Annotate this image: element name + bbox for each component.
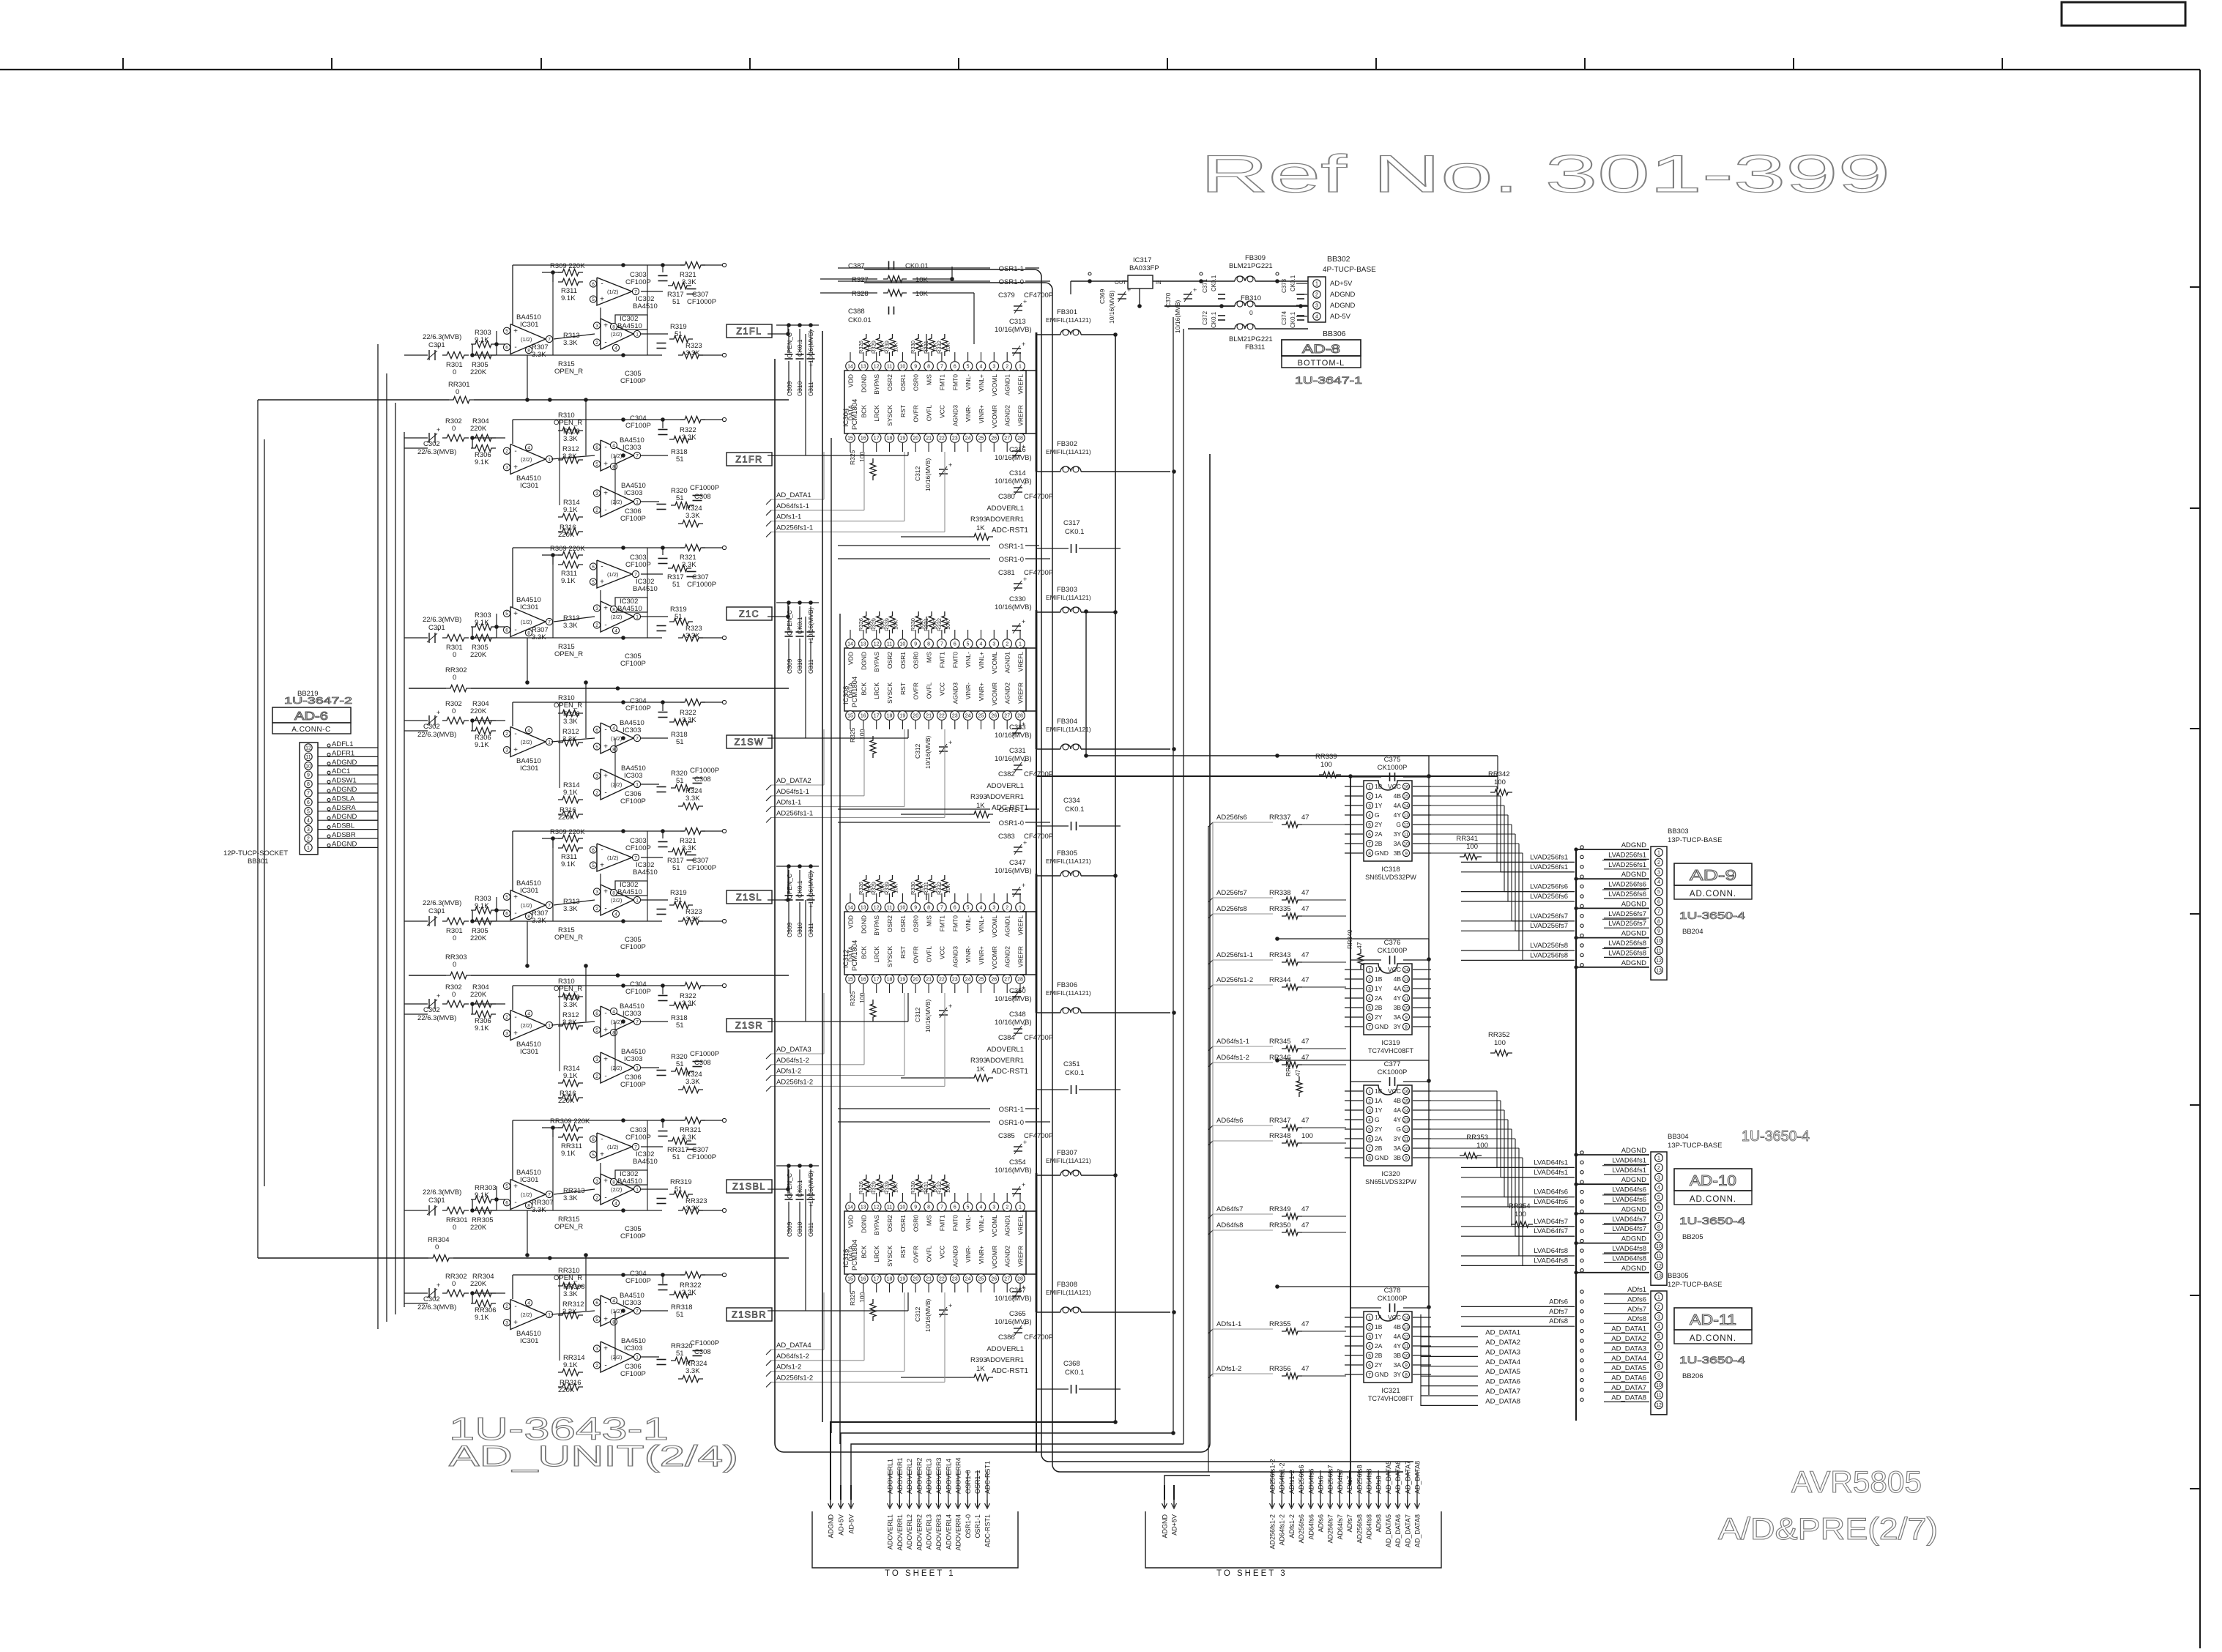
svg-text:51: 51 bbox=[672, 298, 680, 306]
svg-text:14: 14 bbox=[1403, 1315, 1409, 1320]
svg-text:100: 100 bbox=[1466, 843, 1478, 851]
svg-text:FB310: FB310 bbox=[1241, 294, 1261, 302]
svg-text:OSR0: OSR0 bbox=[913, 374, 920, 391]
svg-text:ADOVERR4: ADOVERR4 bbox=[955, 1514, 962, 1551]
svg-text:15: 15 bbox=[847, 436, 853, 442]
svg-text:+: + bbox=[1023, 576, 1027, 583]
svg-text:AGND2: AGND2 bbox=[1004, 682, 1011, 704]
svg-text:AD64fs8: AD64fs8 bbox=[1216, 1221, 1243, 1229]
svg-text:2: 2 bbox=[595, 508, 598, 513]
svg-text:LVAD256fs6: LVAD256fs6 bbox=[1608, 890, 1646, 898]
svg-text:C370: C370 bbox=[1164, 292, 1172, 308]
svg-text:IC308: IC308 bbox=[842, 686, 850, 704]
svg-text:14: 14 bbox=[847, 642, 853, 647]
svg-text:DGND: DGND bbox=[860, 1215, 867, 1233]
svg-text:VINL-: VINL- bbox=[965, 1215, 972, 1231]
svg-text:51: 51 bbox=[672, 864, 680, 872]
svg-text:BA4510: BA4510 bbox=[617, 888, 642, 896]
svg-text:20: 20 bbox=[913, 1277, 918, 1282]
svg-text:1: 1 bbox=[636, 614, 639, 619]
svg-text:C312: C312 bbox=[914, 743, 921, 759]
svg-text:FB303: FB303 bbox=[1057, 586, 1077, 594]
svg-text:IC316: IC316 bbox=[842, 1249, 850, 1268]
svg-text:C309: C309 bbox=[786, 381, 793, 396]
svg-text:-: - bbox=[514, 909, 516, 918]
svg-text:1: 1 bbox=[636, 898, 639, 903]
svg-text:+: + bbox=[600, 578, 604, 587]
svg-text:220K: 220K bbox=[470, 1224, 487, 1232]
svg-text:15: 15 bbox=[1403, 1098, 1409, 1104]
svg-text:4: 4 bbox=[527, 1011, 530, 1016]
svg-text:6: 6 bbox=[954, 906, 956, 911]
svg-text:10: 10 bbox=[1656, 1383, 1662, 1388]
svg-text:2B: 2B bbox=[1375, 1145, 1383, 1152]
svg-text:AD256fs1-1: AD256fs1-1 bbox=[776, 809, 813, 817]
svg-text:5: 5 bbox=[505, 611, 508, 617]
svg-text:C309: C309 bbox=[786, 658, 793, 674]
svg-text:1U-3650-4: 1U-3650-4 bbox=[1742, 1128, 1810, 1145]
svg-text:9.1K: 9.1K bbox=[561, 577, 576, 585]
svg-text:-: - bbox=[604, 789, 606, 797]
svg-text:OSR1: OSR1 bbox=[899, 374, 907, 391]
svg-text:18: 18 bbox=[887, 436, 893, 442]
svg-text:100: 100 bbox=[1494, 778, 1506, 786]
svg-text:2: 2 bbox=[1368, 1098, 1371, 1104]
svg-text:AD_DATA6: AD_DATA6 bbox=[1485, 1378, 1520, 1386]
svg-text:0: 0 bbox=[452, 1280, 456, 1288]
svg-text:-: - bbox=[604, 1299, 606, 1307]
svg-text:C369: C369 bbox=[1099, 289, 1106, 304]
svg-text:3: 3 bbox=[1368, 986, 1371, 991]
svg-text:C387: C387 bbox=[848, 262, 865, 270]
svg-text:4: 4 bbox=[1368, 996, 1371, 1001]
svg-text:3B: 3B bbox=[1394, 1154, 1402, 1161]
svg-text:17: 17 bbox=[874, 978, 880, 983]
svg-text:FB307: FB307 bbox=[1057, 1149, 1077, 1157]
svg-text:R393: R393 bbox=[970, 1057, 987, 1065]
svg-text:CF1000P: CF1000P bbox=[690, 1339, 719, 1347]
svg-text:OSR1-0: OSR1-0 bbox=[999, 819, 1024, 827]
svg-text:9.1K: 9.1K bbox=[563, 1361, 578, 1369]
svg-text:3.3K: 3.3K bbox=[563, 1194, 578, 1202]
svg-text:RR350: RR350 bbox=[1269, 1221, 1291, 1229]
svg-text:AD64fs7: AD64fs7 bbox=[1216, 1205, 1243, 1213]
svg-text:AD-5V: AD-5V bbox=[848, 1514, 855, 1534]
svg-text:0: 0 bbox=[456, 388, 459, 396]
svg-text:AD_DATA6: AD_DATA6 bbox=[1394, 1461, 1402, 1494]
svg-text:ADGND: ADGND bbox=[1621, 900, 1646, 908]
svg-text:2: 2 bbox=[595, 341, 598, 346]
svg-text:10: 10 bbox=[1656, 939, 1662, 944]
svg-text:ADfs1: ADfs1 bbox=[1627, 1286, 1646, 1294]
svg-text:FMT1: FMT1 bbox=[938, 652, 945, 668]
svg-text:RR341: RR341 bbox=[1456, 835, 1478, 843]
svg-text:Z1FR: Z1FR bbox=[735, 455, 762, 465]
svg-text:9: 9 bbox=[1657, 1235, 1660, 1240]
svg-text:M/S: M/S bbox=[926, 915, 933, 926]
svg-text:LVAD64fs1: LVAD64fs1 bbox=[1534, 1169, 1568, 1177]
svg-text:7: 7 bbox=[1368, 841, 1371, 847]
svg-text:6: 6 bbox=[1368, 1363, 1371, 1368]
svg-text:2B: 2B bbox=[1375, 1004, 1383, 1011]
svg-text:ADOVERR4: ADOVERR4 bbox=[955, 1457, 962, 1494]
svg-text:4: 4 bbox=[980, 642, 983, 647]
svg-text:RR348: RR348 bbox=[1269, 1132, 1291, 1140]
svg-text:TO SHEET 3: TO SHEET 3 bbox=[1216, 1569, 1288, 1578]
svg-text:IC304: IC304 bbox=[842, 409, 850, 427]
svg-text:OVFR: OVFR bbox=[913, 1246, 920, 1263]
svg-text:+: + bbox=[513, 893, 518, 901]
svg-text:10/16(MVB): 10/16(MVB) bbox=[995, 867, 1032, 875]
svg-text:-: - bbox=[604, 726, 606, 734]
svg-text:AD64fs1-2: AD64fs1-2 bbox=[776, 1057, 809, 1065]
svg-text:9.1K: 9.1K bbox=[561, 860, 576, 868]
svg-text:-: - bbox=[604, 1073, 606, 1081]
svg-text:AGND1: AGND1 bbox=[1004, 915, 1011, 937]
svg-text:M/S: M/S bbox=[926, 652, 933, 663]
svg-text:8: 8 bbox=[307, 782, 310, 787]
svg-text:(2/2): (2/2) bbox=[611, 1186, 623, 1193]
svg-text:VCC: VCC bbox=[1388, 1087, 1401, 1095]
svg-text:LVAD64fs8: LVAD64fs8 bbox=[1612, 1254, 1646, 1262]
svg-text:7: 7 bbox=[940, 906, 943, 911]
svg-text:ADOVERL3: ADOVERL3 bbox=[926, 1514, 933, 1549]
svg-text:-: - bbox=[514, 626, 516, 634]
svg-text:SN65LVDS32PW: SN65LVDS32PW bbox=[1365, 1178, 1416, 1186]
svg-text:AD-10: AD-10 bbox=[1690, 1173, 1736, 1189]
svg-text:13P-TUCP-BASE: 13P-TUCP-BASE bbox=[1668, 1142, 1722, 1150]
svg-text:1K: 1K bbox=[976, 1365, 985, 1373]
svg-text:14: 14 bbox=[1403, 1108, 1409, 1113]
svg-text:VREFR: VREFR bbox=[1017, 682, 1025, 704]
svg-text:AD_DATA3: AD_DATA3 bbox=[1611, 1344, 1646, 1353]
svg-text:1: 1 bbox=[1019, 642, 1022, 647]
svg-text:3.3K: 3.3K bbox=[563, 622, 578, 630]
svg-text:2B: 2B bbox=[1375, 1352, 1383, 1359]
svg-text:9.1K: 9.1K bbox=[475, 741, 489, 749]
svg-text:CF100P: CF100P bbox=[625, 988, 651, 996]
svg-text:1Y: 1Y bbox=[1375, 802, 1383, 809]
svg-text:C379: C379 bbox=[998, 291, 1015, 299]
svg-text:CF1000P: CF1000P bbox=[687, 298, 716, 306]
svg-text:11: 11 bbox=[887, 365, 892, 370]
svg-text:ADfs7: ADfs7 bbox=[1549, 1308, 1568, 1316]
svg-text:3: 3 bbox=[505, 1321, 508, 1326]
svg-text:13: 13 bbox=[1403, 813, 1409, 818]
svg-text:1U-3650-4: 1U-3650-4 bbox=[1679, 1354, 1745, 1366]
svg-text:(1/2): (1/2) bbox=[611, 1308, 623, 1314]
svg-text:VINR-: VINR- bbox=[965, 946, 972, 963]
svg-text:2: 2 bbox=[1006, 642, 1008, 647]
svg-text:9.1K: 9.1K bbox=[563, 1072, 578, 1080]
svg-text:19: 19 bbox=[900, 436, 906, 442]
svg-text:3B: 3B bbox=[1394, 849, 1402, 857]
svg-text:CF1000P: CF1000P bbox=[690, 484, 719, 492]
svg-text:20: 20 bbox=[913, 978, 918, 983]
svg-text:4: 4 bbox=[1315, 315, 1318, 320]
svg-text:+: + bbox=[603, 773, 608, 781]
svg-text:3.3K: 3.3K bbox=[563, 1001, 578, 1009]
svg-text:CK0.1: CK0.1 bbox=[1211, 275, 1217, 291]
svg-text:ADfs6: ADfs6 bbox=[1318, 1476, 1325, 1494]
svg-text:11: 11 bbox=[305, 755, 311, 760]
svg-text:2: 2 bbox=[1657, 860, 1660, 866]
svg-text:VCC: VCC bbox=[1388, 1314, 1401, 1321]
svg-text:ADGND: ADGND bbox=[1621, 1147, 1646, 1155]
svg-text:+: + bbox=[603, 888, 608, 896]
svg-text:C348: C348 bbox=[1009, 1011, 1026, 1019]
svg-text:AGND2: AGND2 bbox=[1004, 946, 1011, 968]
svg-text:+: + bbox=[436, 426, 440, 434]
svg-text:AD_DATA1: AD_DATA1 bbox=[1611, 1325, 1646, 1333]
svg-text:BB205: BB205 bbox=[1682, 1233, 1703, 1241]
svg-text:12: 12 bbox=[1403, 1334, 1409, 1339]
svg-text:4: 4 bbox=[307, 819, 310, 824]
svg-text:VINR-: VINR- bbox=[965, 405, 972, 422]
svg-text:22/6.3(MVB): 22/6.3(MVB) bbox=[423, 1188, 461, 1197]
svg-text:LVAD256fs1: LVAD256fs1 bbox=[1608, 851, 1646, 859]
svg-text:0: 0 bbox=[453, 934, 456, 942]
svg-text:10/16(MVB): 10/16(MVB) bbox=[924, 735, 932, 769]
svg-text:VREFL: VREFL bbox=[1017, 374, 1025, 395]
svg-text:10K: 10K bbox=[945, 1183, 951, 1193]
svg-text:R309 220K: R309 220K bbox=[550, 262, 585, 270]
svg-text:1: 1 bbox=[1368, 784, 1371, 789]
svg-text:BA4510: BA4510 bbox=[617, 322, 642, 330]
svg-text:9: 9 bbox=[1657, 929, 1660, 934]
svg-text:3: 3 bbox=[992, 365, 995, 370]
svg-text:R329: R329 bbox=[871, 882, 877, 895]
svg-text:VCC: VCC bbox=[1388, 966, 1401, 973]
svg-text:9: 9 bbox=[914, 642, 917, 647]
svg-text:7: 7 bbox=[1657, 909, 1660, 915]
svg-text:RR349: RR349 bbox=[1269, 1205, 1291, 1213]
svg-text:26: 26 bbox=[991, 1277, 997, 1282]
svg-text:-: - bbox=[604, 1194, 606, 1202]
svg-text:+: + bbox=[1023, 839, 1027, 847]
svg-text:3.3K: 3.3K bbox=[685, 1367, 700, 1375]
svg-text:6: 6 bbox=[592, 1137, 595, 1142]
svg-text:ADfs1-1: ADfs1-1 bbox=[1216, 1320, 1241, 1328]
svg-text:4: 4 bbox=[1368, 1117, 1371, 1123]
svg-text:4: 4 bbox=[612, 1298, 615, 1303]
svg-text:ADfs1-1: ADfs1-1 bbox=[776, 799, 801, 807]
svg-text:1K: 1K bbox=[976, 524, 985, 532]
svg-text:ADOVERR1: ADOVERR1 bbox=[896, 1457, 904, 1494]
svg-text:2: 2 bbox=[595, 791, 598, 796]
svg-text:15: 15 bbox=[1403, 794, 1409, 799]
svg-text:22/6.3(MVB): 22/6.3(MVB) bbox=[417, 1014, 456, 1022]
svg-text:IC303: IC303 bbox=[624, 772, 642, 780]
svg-text:ADGND: ADGND bbox=[1621, 1265, 1646, 1273]
svg-text:ADOVERR3: ADOVERR3 bbox=[935, 1457, 943, 1494]
svg-text:4A: 4A bbox=[1394, 1333, 1402, 1340]
svg-text:13: 13 bbox=[861, 1205, 866, 1210]
svg-text:AD_DATA1: AD_DATA1 bbox=[1485, 1329, 1520, 1337]
svg-text:AD256fs1-2: AD256fs1-2 bbox=[1269, 1514, 1277, 1549]
svg-text:3.3K: 3.3K bbox=[563, 905, 578, 913]
svg-text:ADfs1-2: ADfs1-2 bbox=[1288, 1514, 1296, 1538]
svg-text:3.3K: 3.3K bbox=[685, 1078, 700, 1086]
svg-text:ADOVERL1: ADOVERL1 bbox=[986, 1046, 1024, 1054]
svg-text:+: + bbox=[603, 322, 608, 330]
svg-text:26: 26 bbox=[991, 978, 997, 983]
svg-text:C302: C302 bbox=[423, 440, 440, 448]
svg-text:22/6.3(MVB): 22/6.3(MVB) bbox=[417, 1303, 456, 1311]
svg-text:5: 5 bbox=[592, 1153, 595, 1158]
svg-text:AD_DATA8: AD_DATA8 bbox=[1611, 1394, 1646, 1402]
svg-text:12: 12 bbox=[1403, 986, 1409, 991]
svg-text:6: 6 bbox=[1657, 1344, 1660, 1350]
svg-text:11: 11 bbox=[1656, 1254, 1661, 1260]
svg-text:ADfs1-1: ADfs1-1 bbox=[776, 513, 801, 521]
svg-text:BA4510: BA4510 bbox=[633, 585, 658, 593]
svg-text:CF100P: CF100P bbox=[620, 1081, 646, 1089]
svg-text:10/16(MVB): 10/16(MVB) bbox=[995, 603, 1032, 611]
svg-text:0: 0 bbox=[453, 674, 456, 682]
svg-text:DGND: DGND bbox=[860, 652, 867, 670]
svg-text:ADOVERL1: ADOVERL1 bbox=[986, 505, 1024, 513]
svg-text:220K: 220K bbox=[470, 707, 487, 715]
svg-text:IC319: IC319 bbox=[1381, 1039, 1400, 1047]
svg-text:1Y: 1Y bbox=[1375, 985, 1383, 992]
svg-text:1: 1 bbox=[548, 740, 551, 745]
svg-text:51: 51 bbox=[676, 1350, 684, 1358]
svg-text:9.1K: 9.1K bbox=[563, 789, 578, 797]
svg-text:+: + bbox=[603, 1056, 608, 1064]
svg-text:1: 1 bbox=[1019, 906, 1022, 911]
svg-text:15: 15 bbox=[847, 1277, 853, 1282]
svg-text:14: 14 bbox=[847, 906, 853, 911]
svg-text:7: 7 bbox=[1657, 1354, 1660, 1359]
svg-text:-: - bbox=[514, 1199, 516, 1207]
svg-text:LVAD64fs1: LVAD64fs1 bbox=[1534, 1158, 1568, 1167]
svg-text:5: 5 bbox=[595, 462, 598, 467]
svg-text:VREFR: VREFR bbox=[1017, 405, 1025, 426]
svg-text:ADGND: ADGND bbox=[1621, 871, 1646, 879]
svg-text:47: 47 bbox=[1301, 1365, 1309, 1373]
svg-text:16: 16 bbox=[861, 714, 866, 719]
svg-text:4Y: 4Y bbox=[1394, 811, 1402, 819]
svg-text:4: 4 bbox=[614, 912, 617, 917]
svg-text:ADOVERL4: ADOVERL4 bbox=[945, 1514, 952, 1549]
svg-text:OPEN_R: OPEN_R bbox=[554, 368, 583, 376]
svg-text:4A: 4A bbox=[1394, 802, 1402, 809]
svg-text:+: + bbox=[513, 464, 518, 472]
svg-text:LVAD256fs1: LVAD256fs1 bbox=[1530, 863, 1568, 871]
svg-text:+: + bbox=[513, 1183, 518, 1191]
svg-text:11: 11 bbox=[1404, 996, 1409, 1001]
svg-text:IN: IN bbox=[1156, 279, 1162, 286]
svg-text:4: 4 bbox=[1368, 813, 1371, 818]
svg-text:C384: C384 bbox=[998, 1034, 1015, 1042]
svg-text:12P-TUCP-SOCKET: 12P-TUCP-SOCKET bbox=[223, 849, 288, 857]
svg-text:4B: 4B bbox=[1394, 1323, 1402, 1331]
svg-text:VDD: VDD bbox=[847, 1215, 855, 1228]
svg-text:+: + bbox=[1023, 1139, 1027, 1146]
svg-text:8: 8 bbox=[612, 890, 615, 896]
svg-text:-: - bbox=[604, 1010, 606, 1018]
svg-text:R329: R329 bbox=[871, 341, 877, 354]
svg-text:14: 14 bbox=[1403, 803, 1409, 808]
svg-text:IC318: IC318 bbox=[1381, 866, 1400, 874]
svg-text:4B: 4B bbox=[1394, 975, 1402, 983]
svg-text:1: 1 bbox=[548, 457, 551, 462]
svg-text:LVAD256fs7: LVAD256fs7 bbox=[1530, 912, 1568, 920]
svg-text:LVAD256fs6: LVAD256fs6 bbox=[1530, 883, 1568, 891]
svg-text:RR301: RR301 bbox=[446, 1216, 468, 1224]
svg-text:PCM1804: PCM1804 bbox=[851, 399, 859, 430]
svg-text:13: 13 bbox=[1656, 968, 1662, 973]
svg-text:10/16(MVB): 10/16(MVB) bbox=[995, 1167, 1032, 1175]
svg-text:R331: R331 bbox=[923, 882, 929, 895]
svg-text:ADGND: ADGND bbox=[1621, 1176, 1646, 1184]
svg-text:AD.CONN.: AD.CONN. bbox=[1690, 1195, 1736, 1204]
svg-text:+: + bbox=[513, 1030, 518, 1038]
svg-text:22/6.3(MVB): 22/6.3(MVB) bbox=[423, 333, 461, 341]
svg-text:IC303: IC303 bbox=[623, 444, 641, 452]
svg-text:C333: C333 bbox=[1009, 723, 1026, 732]
svg-text:28: 28 bbox=[1017, 1277, 1023, 1282]
svg-text:AD_DATA5: AD_DATA5 bbox=[1485, 1368, 1520, 1376]
svg-text:LRCK: LRCK bbox=[873, 946, 880, 963]
svg-text:10/16(MVB): 10/16(MVB) bbox=[995, 326, 1032, 334]
svg-text:CK1000P: CK1000P bbox=[1378, 947, 1408, 955]
svg-text:CF100P: CF100P bbox=[620, 1232, 646, 1240]
svg-text:9.1K: 9.1K bbox=[475, 458, 489, 466]
svg-text:6: 6 bbox=[307, 800, 310, 805]
svg-text:(2/2): (2/2) bbox=[611, 1065, 623, 1071]
svg-text:RR353: RR353 bbox=[1466, 1134, 1488, 1142]
svg-text:8: 8 bbox=[927, 365, 930, 370]
svg-text:51: 51 bbox=[676, 1311, 684, 1319]
svg-text:ADOVERL4: ADOVERL4 bbox=[945, 1459, 952, 1494]
svg-text:6: 6 bbox=[1657, 1205, 1660, 1210]
svg-text:5: 5 bbox=[1368, 1005, 1371, 1011]
svg-text:10/16(MVB): 10/16(MVB) bbox=[995, 995, 1032, 1003]
svg-text:AD_DATA5: AD_DATA5 bbox=[1385, 1514, 1392, 1547]
svg-text:10K: 10K bbox=[915, 290, 929, 298]
svg-text:3: 3 bbox=[595, 491, 598, 496]
svg-text:9: 9 bbox=[914, 906, 917, 911]
svg-text:7: 7 bbox=[1368, 1024, 1371, 1030]
svg-text:VCOMR: VCOMR bbox=[991, 946, 998, 970]
svg-text:0: 0 bbox=[1249, 309, 1253, 316]
svg-text:4: 4 bbox=[980, 1205, 983, 1210]
svg-text:8: 8 bbox=[1368, 851, 1371, 856]
svg-text:1: 1 bbox=[1657, 1156, 1660, 1161]
svg-text:11: 11 bbox=[887, 1205, 892, 1210]
svg-text:IC320: IC320 bbox=[1381, 1170, 1400, 1178]
svg-text:ADfs7: ADfs7 bbox=[1627, 1306, 1646, 1314]
svg-text:5: 5 bbox=[592, 863, 595, 868]
svg-text:C309: C309 bbox=[786, 922, 793, 937]
svg-text:OPEN_R: OPEN_R bbox=[554, 419, 582, 427]
svg-text:220K: 220K bbox=[470, 368, 487, 376]
svg-text:12: 12 bbox=[1656, 1264, 1662, 1269]
svg-text:LVAD64fs7: LVAD64fs7 bbox=[1612, 1225, 1646, 1233]
svg-text:+: + bbox=[600, 296, 604, 304]
svg-text:10: 10 bbox=[900, 1205, 906, 1210]
svg-text:IC321: IC321 bbox=[1381, 1387, 1400, 1395]
svg-text:51: 51 bbox=[676, 738, 684, 746]
svg-text:2: 2 bbox=[505, 449, 508, 454]
svg-text:FB308: FB308 bbox=[1057, 1281, 1077, 1289]
svg-text:LVAD256fs1: LVAD256fs1 bbox=[1530, 853, 1568, 861]
svg-text:VINR+: VINR+ bbox=[978, 1246, 985, 1264]
svg-text:GND: GND bbox=[1375, 849, 1389, 857]
svg-text:AD256fs6: AD256fs6 bbox=[1216, 814, 1247, 822]
